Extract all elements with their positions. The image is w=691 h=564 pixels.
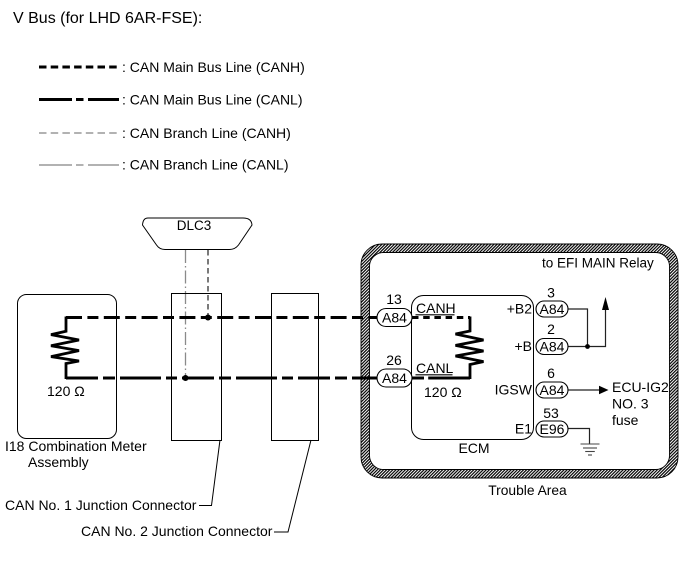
leader line to junction connector 1 [199, 440, 220, 506]
svg-text:A84: A84 [540, 339, 565, 355]
resistor R1 120 ohm in combination meter [51, 317, 79, 380]
svg-text:IGSW: IGSW [495, 382, 533, 398]
legend CAN Branch Line (CANH) sample line [39, 132, 121, 134]
wire CANL lead inside ECM [412, 377, 470, 380]
arrow up to EFI MAIN Relay [602, 297, 609, 310]
wire CAN main bus CANH (thick dashed horizontal) [66, 316, 378, 319]
svg-text:Assembly: Assembly [28, 454, 89, 470]
svg-text:: CAN Branch Line (CANH): : CAN Branch Line (CANH) [122, 125, 291, 141]
wire CANH lead inside ECM [412, 316, 470, 319]
wire from pin 2 to EFI MAIN relay riser [568, 310, 606, 347]
pin 3 connector oval A84 [536, 301, 568, 317]
svg-text:: CAN Branch Line (CANL): : CAN Branch Line (CANL) [122, 157, 289, 173]
wire from pin 53 to ground [568, 429, 590, 445]
svg-text:NO. 3: NO. 3 [612, 396, 649, 412]
svg-text:26: 26 [386, 352, 402, 368]
box CAN No. 1 Junction Connector [172, 294, 222, 441]
svg-text:V Bus (for LHD 6AR-FSE):: V Bus (for LHD 6AR-FSE): [13, 10, 202, 27]
svg-text:CANL: CANL [416, 360, 454, 376]
svg-text:CAN No. 2 Junction Connector: CAN No. 2 Junction Connector [81, 523, 273, 539]
svg-text:A84: A84 [382, 370, 407, 386]
svg-text:: CAN Main Bus Line (CANL): : CAN Main Bus Line (CANL) [122, 92, 303, 108]
legend CAN Branch Line (CANL) sample line [39, 164, 119, 166]
svg-text:A84: A84 [540, 301, 565, 317]
junction node dot pins 3/2 [585, 344, 590, 349]
pin 26 connector oval A84 [377, 369, 412, 387]
svg-text:CAN No. 1 Junction Connector: CAN No. 1 Junction Connector [5, 497, 197, 513]
pin 2 connector oval A84 [536, 339, 568, 355]
box CAN No. 2 Junction Connector [272, 294, 319, 441]
junction node dot on CANH at DLC3 branch [205, 315, 211, 321]
trouble area hatched border [361, 244, 678, 478]
svg-text:CANH: CANH [416, 300, 456, 316]
wire branch line CANH from DLC3 (gray dashed vertical) [207, 250, 209, 318]
svg-text:: CAN Main Bus Line (CANH): : CAN Main Bus Line (CANH) [122, 59, 305, 75]
svg-text:I18 Combination Meter: I18 Combination Meter [5, 438, 147, 454]
svg-text:to EFI MAIN Relay: to EFI MAIN Relay [542, 256, 654, 271]
svg-text:A84: A84 [382, 310, 407, 326]
svg-text:2: 2 [547, 321, 555, 337]
svg-text:E1: E1 [515, 421, 532, 437]
resistor R2 120 ohm in ECM [456, 317, 484, 380]
legend CAN Main Bus Line (CANL) sample line [39, 98, 119, 101]
svg-text:6: 6 [547, 365, 555, 381]
svg-text:3: 3 [547, 285, 555, 301]
pin 6 connector oval A84 [536, 382, 568, 398]
ground symbol [581, 444, 600, 455]
svg-text:ECU-IG2: ECU-IG2 [612, 379, 669, 395]
svg-text:E96: E96 [540, 421, 565, 437]
wire from pin 6 to fuse arrow [568, 389, 600, 391]
pin 53 connector oval E96 [536, 421, 568, 437]
box I18 Combination Meter Assembly [18, 295, 117, 439]
svg-text:120 Ω: 120 Ω [47, 383, 85, 399]
connector DLC3 body [143, 218, 253, 250]
wire CAN main bus CANL (thick dash-dot horizontal) [66, 377, 378, 380]
svg-text:DLC3: DLC3 [177, 218, 212, 233]
svg-text:+B: +B [514, 338, 532, 354]
svg-text:fuse: fuse [612, 412, 639, 428]
svg-text:Trouble Area: Trouble Area [488, 483, 567, 498]
wire from pin 3 to junction [568, 309, 588, 347]
svg-text:ECM: ECM [458, 440, 489, 456]
legend CAN Main Bus Line (CANH) sample line [39, 66, 121, 69]
arrow right to ECU-IG2 fuse [599, 386, 609, 394]
svg-text:53: 53 [543, 405, 559, 421]
junction node dot on CANL at DLC3 branch [183, 375, 189, 381]
box ECM [412, 296, 534, 440]
svg-text:13: 13 [386, 291, 402, 307]
pin 13 connector oval A84 [377, 309, 412, 327]
leader line to junction connector 2 [274, 440, 311, 532]
svg-text:+B2: +B2 [507, 301, 533, 317]
svg-text:120 Ω: 120 Ω [424, 384, 462, 400]
svg-text:A84: A84 [540, 382, 565, 398]
wire branch line CANL from DLC3 (gray dash-dot vertical) [185, 250, 187, 378]
